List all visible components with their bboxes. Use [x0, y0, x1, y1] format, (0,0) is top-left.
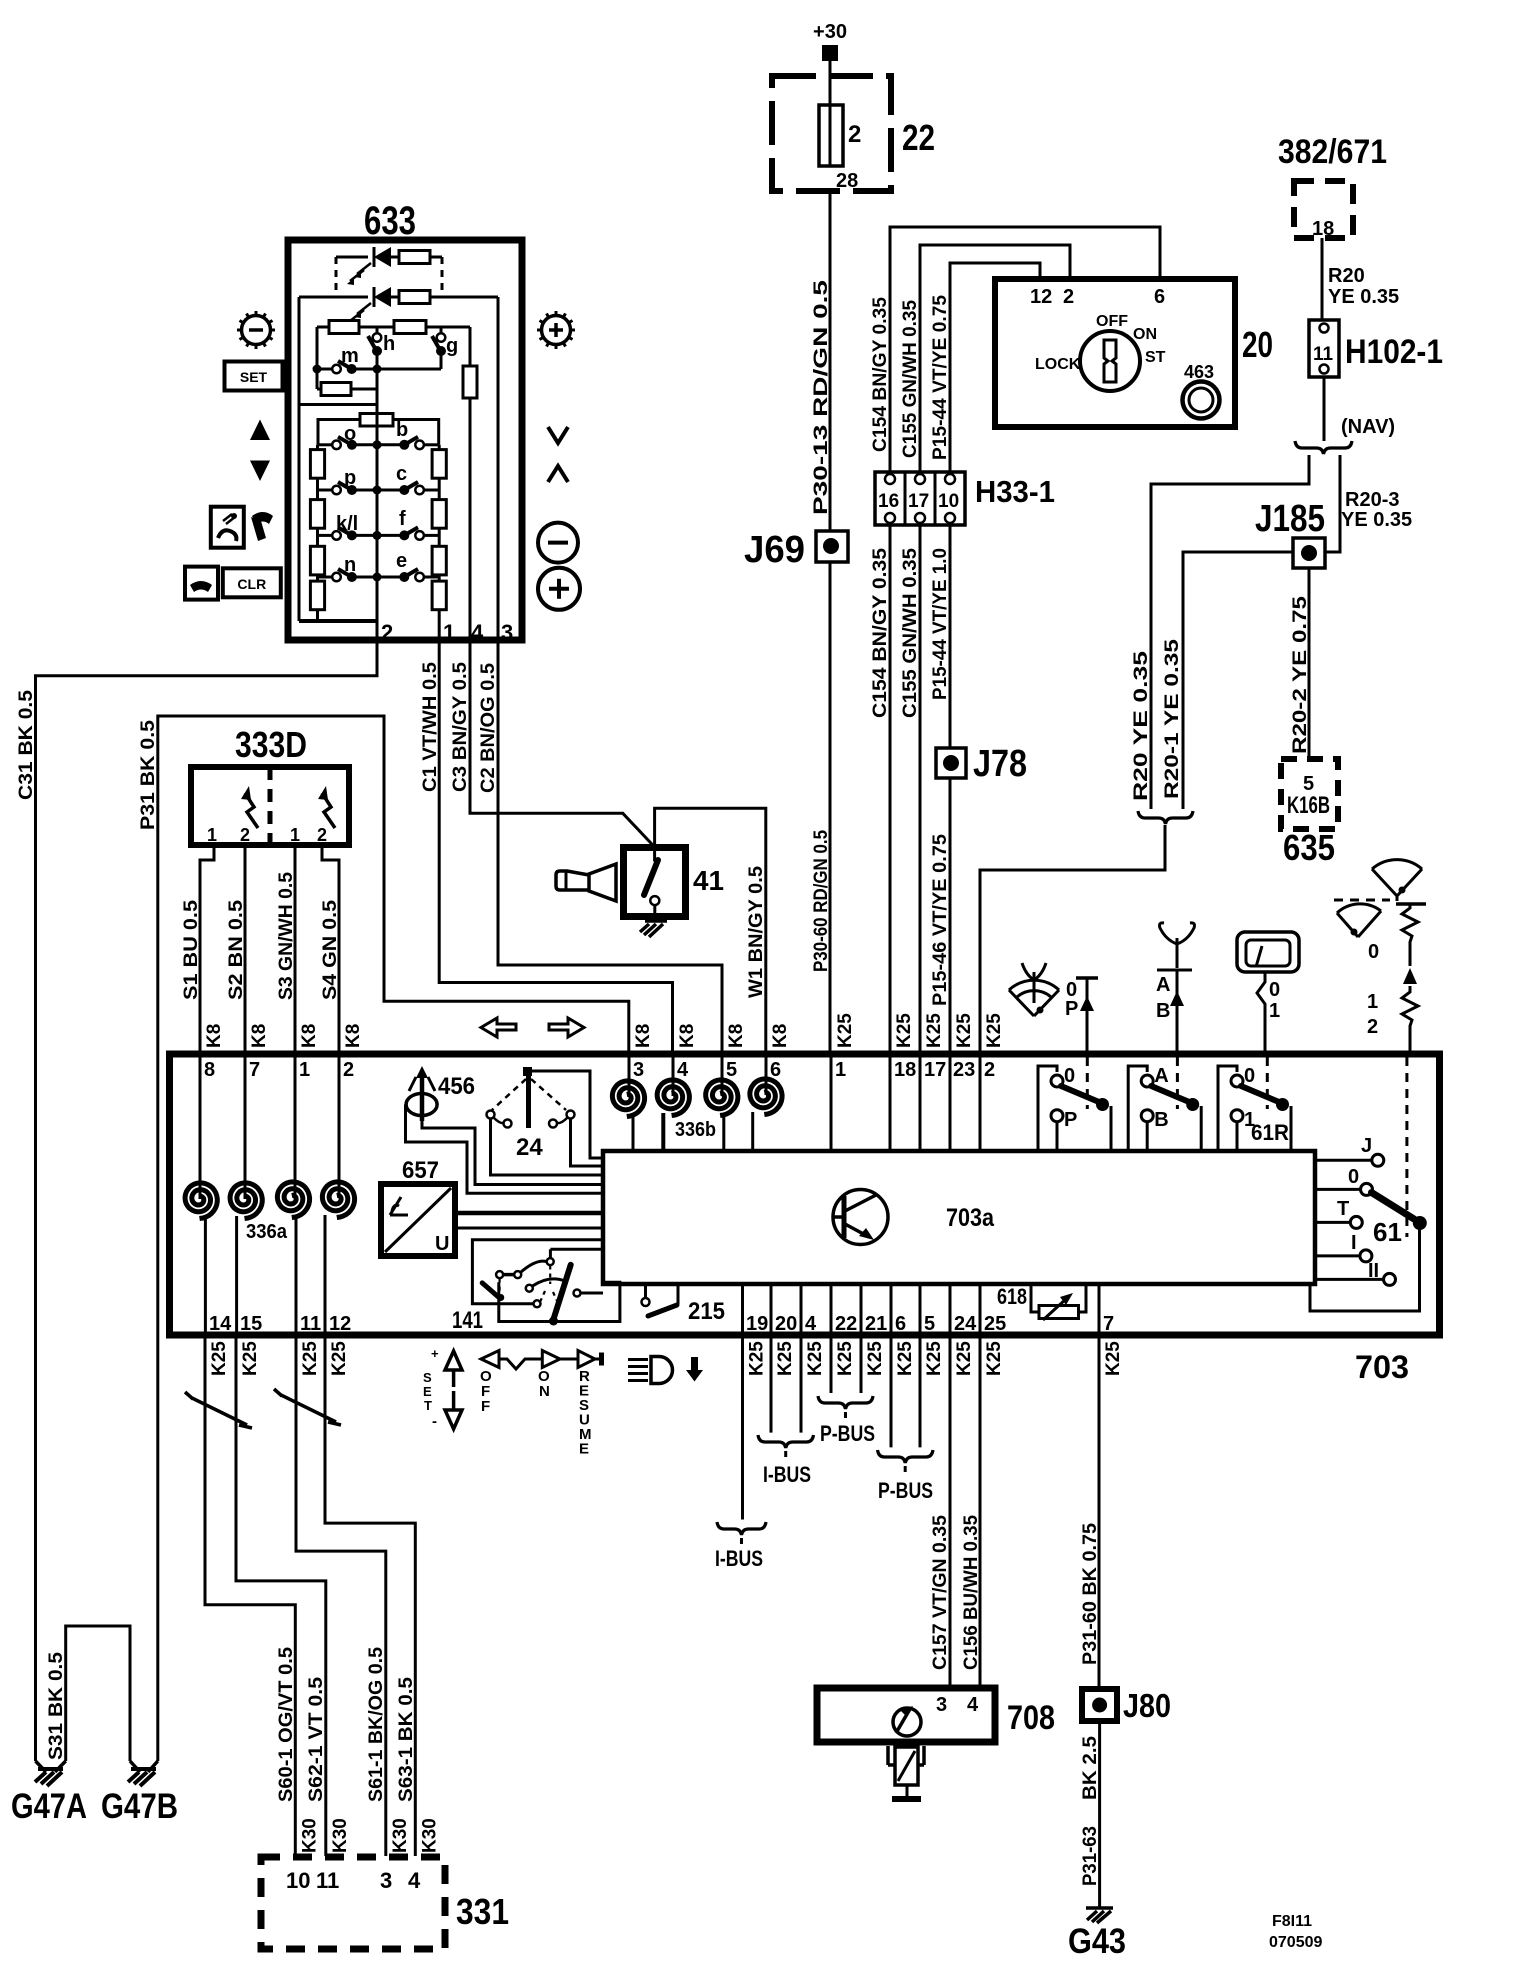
svg-text:331: 331	[456, 1891, 509, 1932]
wire W1 from 41 to 703 pin 6	[655, 808, 766, 1053]
svg-text:11: 11	[300, 1313, 321, 1335]
svg-text:P31 BK 0.5: P31 BK 0.5	[138, 720, 159, 830]
svg-text:E: E	[579, 1441, 589, 1458]
svg-text:S: S	[423, 1370, 432, 1385]
svg-text:10: 10	[938, 491, 959, 512]
wire S1 from 333D to 703 pin 8	[200, 845, 214, 1053]
icon OFF arrow	[481, 1351, 499, 1368]
wire S62-1 703 pin15 to 331 pin11	[236, 1338, 326, 1856]
svg-text:0: 0	[1348, 1166, 1359, 1188]
wire C154 H33-1 pin16 to ignition pin 6	[890, 227, 1160, 472]
svg-text:456: 456	[438, 1073, 475, 1100]
svg-text:2: 2	[1367, 1016, 1378, 1038]
svg-text:382/671: 382/671	[1278, 133, 1387, 171]
switch h in 633	[376, 327, 379, 334]
svg-text:SET: SET	[240, 369, 268, 385]
svg-text:K25: K25	[835, 1013, 856, 1048]
svg-text:17: 17	[924, 1059, 946, 1081]
svg-text:S62-1 VT 0.5: S62-1 VT 0.5	[306, 1677, 327, 1802]
actuator line with arrow (A/B group)	[1176, 970, 1179, 1053]
svg-text:T: T	[1337, 1198, 1349, 1220]
svg-text:R20-2 YE 0.75: R20-2 YE 0.75	[1290, 595, 1311, 754]
svg-text:n: n	[344, 554, 356, 576]
inner unit 703a	[603, 1151, 1315, 1284]
svg-text:4: 4	[677, 1059, 689, 1081]
svg-text:P: P	[1064, 1109, 1077, 1131]
LED 1 with dashed links in 633	[336, 256, 368, 259]
wire 703 pin21 to P-BUS	[860, 1338, 863, 1393]
svg-text:K8: K8	[677, 1024, 698, 1048]
wire C156 703 pin25 to 708	[979, 1338, 982, 1687]
coil 336a-3	[277, 1182, 309, 1218]
rotary switch 24	[523, 1067, 532, 1076]
svg-text:16: 16	[878, 491, 899, 512]
svg-text:k/l: k/l	[336, 513, 358, 535]
fuse box 22 (dashed housing)	[772, 76, 891, 191]
kinked actuator (display group)	[1257, 972, 1265, 1053]
svg-text:61: 61	[1373, 1217, 1402, 1247]
wire m-group bottom in 633	[299, 403, 377, 406]
wire S3 from 333D to 703 pin 1	[294, 845, 297, 1053]
svg-text:f: f	[399, 508, 406, 530]
wire 703 pin4 to I-BUS pair	[800, 1338, 803, 1433]
joint J69	[816, 531, 848, 562]
wire 24 left contact to 703a	[491, 1119, 604, 1176]
wire from 633 pin2 to C31 ground branch	[36, 621, 378, 1761]
svg-text:10: 10	[286, 1868, 310, 1893]
wire S61-1 703 pin11 to 331 pin3	[296, 1338, 386, 1856]
svg-text:P31-63: P31-63	[1080, 1826, 1101, 1886]
svg-text:C155 GN/WH 0.35: C155 GN/WH 0.35	[900, 548, 921, 718]
wire P30-13 from fuse 22 to J69	[829, 191, 832, 531]
wire from 61 wiper to 703a	[1310, 1223, 1420, 1311]
svg-text:K8: K8	[299, 1024, 320, 1048]
connector 331 (dashed)	[261, 1857, 445, 1949]
svg-text:S1 BU 0.5: S1 BU 0.5	[181, 900, 202, 1000]
coil 336b-1	[612, 1081, 644, 1117]
svg-text:S60-1 OG/VT 0.5: S60-1 OG/VT 0.5	[276, 1647, 297, 1802]
connector H102-1 pin 11	[1309, 320, 1339, 377]
svg-text:1: 1	[299, 1059, 310, 1081]
icon circle plus	[538, 568, 580, 610]
svg-text:C3 BN/GY 0.5: C3 BN/GY 0.5	[450, 662, 471, 792]
switch n in 633	[318, 576, 334, 579]
connector H33-1	[875, 472, 965, 525]
icon gear plus (right of 633)	[542, 316, 571, 345]
component 633 housing	[288, 240, 522, 640]
svg-text:2: 2	[381, 620, 393, 645]
joint J185	[1293, 538, 1325, 568]
svg-text:II: II	[1368, 1260, 1379, 1282]
wire +30 to fuse 22	[829, 61, 832, 105]
svg-text:23: 23	[953, 1059, 975, 1081]
svg-text:K25: K25	[894, 1013, 915, 1048]
brace P-BUS pair 1	[818, 1396, 873, 1409]
horn contact 41	[624, 848, 686, 917]
svg-text:-: -	[432, 1413, 437, 1430]
svg-text:2: 2	[848, 121, 861, 148]
svg-text:P30-13 RD/GN 0.5: P30-13 RD/GN 0.5	[811, 279, 832, 515]
svg-text:K25: K25	[775, 1341, 796, 1376]
svg-text:1: 1	[835, 1059, 846, 1081]
wire R20-1 from J185 to joint brace	[1183, 552, 1293, 809]
svg-text:1: 1	[290, 825, 300, 845]
svg-text:LOCK: LOCK	[1035, 356, 1081, 373]
svg-text:2: 2	[317, 825, 327, 845]
svg-text:g: g	[446, 335, 458, 357]
icon chevron up	[548, 466, 568, 482]
splice brace (NAV)	[1295, 441, 1352, 454]
svg-text:P: P	[1065, 998, 1078, 1020]
wire R20 YE from 382/671 pin 18	[1321, 238, 1324, 320]
dashed actuator line	[1086, 1057, 1089, 1109]
svg-text:I-BUS: I-BUS	[763, 1462, 811, 1487]
svg-text:0: 0	[1269, 979, 1280, 1001]
transistor symbol in 703a	[833, 1190, 888, 1245]
wire left bus in 633	[298, 297, 301, 621]
wire C3 from 633 pin4 to horn contact 41	[470, 642, 655, 847]
icon horn loudspeaker	[589, 864, 616, 901]
svg-text:633: 633	[364, 199, 416, 243]
svg-text:J80: J80	[1123, 1687, 1171, 1724]
icon intermittent wiper	[1160, 923, 1195, 968]
svg-text:CLR: CLR	[237, 576, 266, 592]
icon display	[1237, 932, 1299, 972]
ground G47B	[130, 1761, 158, 1772]
wire S60-1 703 pin14 to 331 pin10	[205, 1338, 295, 1856]
svg-text:8: 8	[204, 1059, 215, 1081]
icon phone handset	[252, 512, 273, 524]
wire 24 right contact to 703a	[571, 1119, 604, 1167]
svg-text:S61-1 BK/OG 0.5: S61-1 BK/OG 0.5	[366, 1647, 387, 1802]
svg-text:1: 1	[1367, 991, 1378, 1013]
ground G47A	[36, 1761, 66, 1772]
svg-text:K25: K25	[895, 1341, 916, 1376]
svg-text:333D: 333D	[235, 724, 307, 765]
joint J80	[1082, 1689, 1117, 1721]
switch contact group (A/B)	[1128, 1066, 1147, 1151]
svg-text:635: 635	[1283, 827, 1335, 868]
svg-text:6: 6	[895, 1313, 906, 1335]
wire 703 pin8 to coil 336a-1	[199, 1057, 202, 1199]
svg-text:YE 0.35: YE 0.35	[1328, 286, 1399, 308]
svg-text:K16B: K16B	[1287, 792, 1330, 819]
svg-text:141: 141	[452, 1307, 483, 1334]
switch contact group (0/P)	[1038, 1066, 1057, 1151]
joint brace for R20/R20-1	[1138, 811, 1193, 824]
button CLR icon	[223, 568, 281, 597]
wire 657 to 703a lower	[455, 1227, 603, 1230]
icon arrow down (flash)	[686, 1357, 703, 1382]
wire 703 pin4 to coil 336b-2	[672, 1057, 675, 1096]
svg-text:17: 17	[908, 491, 929, 512]
wire 141 contact to 703a	[550, 1248, 603, 1251]
icon gear minus (left of 633)	[242, 316, 271, 345]
svg-text:24: 24	[516, 1134, 543, 1161]
svg-text:P31-60 BK 0.75: P31-60 BK 0.75	[1080, 1523, 1101, 1665]
svg-text:c: c	[396, 463, 407, 485]
wire 703 pin22 to P-BUS	[830, 1338, 833, 1393]
svg-text:K30: K30	[419, 1818, 440, 1853]
svg-text:J185: J185	[1255, 498, 1325, 540]
svg-text:11: 11	[316, 1868, 339, 1893]
coil 336b-2	[657, 1080, 689, 1116]
switch o in 633	[318, 443, 334, 446]
svg-text:2: 2	[1063, 286, 1074, 308]
wire R20 from NAV splice to joint brace	[1151, 455, 1309, 809]
dashed actuator line for 61	[1405, 1057, 1408, 1237]
icon arrow down	[250, 461, 270, 482]
svg-text:11: 11	[1313, 344, 1334, 365]
wire 703 pin6 to coil 336b-4	[765, 1057, 768, 1095]
ground symbol below 41	[653, 917, 656, 921]
wire P30-60 from J69 to 703 pin 1	[829, 562, 832, 1053]
svg-text:C154 BN/GY 0.35: C154 BN/GY 0.35	[870, 297, 891, 452]
svg-text:4: 4	[471, 620, 484, 645]
coil 336a-2	[230, 1183, 262, 1219]
wire 456 stem to 703a	[422, 1121, 603, 1185]
svg-text:4: 4	[805, 1313, 817, 1335]
svg-text:K25: K25	[329, 1341, 350, 1376]
wire P31 ground bus to 703 pin 3	[158, 716, 629, 1761]
svg-text:K25: K25	[209, 1341, 230, 1376]
svg-text:2: 2	[343, 1059, 354, 1081]
wire P31-60 703 pin7 to J80	[1098, 1338, 1101, 1689]
svg-text:14: 14	[209, 1313, 232, 1335]
svg-text:A: A	[1154, 1065, 1168, 1087]
icon block arrow right	[549, 1018, 584, 1037]
switch m in 633	[317, 368, 333, 371]
svg-text:C154 BN/GY 0.35: C154 BN/GY 0.35	[870, 548, 891, 718]
wire centre bus in 633	[376, 405, 379, 622]
resistor top of keypad in 633	[360, 414, 393, 427]
resistor chain left in 633	[316, 445, 319, 621]
svg-text:R20-3: R20-3	[1345, 489, 1399, 511]
svg-text:22: 22	[902, 117, 935, 158]
joint J78	[936, 748, 966, 778]
svg-text:P-BUS: P-BUS	[878, 1478, 933, 1503]
svg-text:OFF: OFF	[1096, 313, 1128, 330]
svg-text:20: 20	[1242, 324, 1273, 365]
svg-text:20: 20	[775, 1313, 797, 1335]
wire C155 from H33-1 pin17 to 703 pin 17	[919, 525, 922, 1053]
icon wiper top right	[1372, 860, 1422, 896]
svg-text:61R: 61R	[1251, 1120, 1289, 1145]
svg-text:J69: J69	[744, 529, 805, 571]
svg-text:4: 4	[967, 1694, 979, 1716]
ignition switch 20	[995, 279, 1235, 427]
switch p in 633	[318, 489, 334, 492]
svg-text:3: 3	[936, 1694, 947, 1716]
svg-text:S63-1 BK 0.5: S63-1 BK 0.5	[396, 1677, 417, 1802]
svg-text:3: 3	[633, 1059, 644, 1081]
spring actuator with arrow (61 group)	[1396, 902, 1426, 906]
svg-text:J78: J78	[973, 743, 1027, 785]
svg-text:K30: K30	[299, 1818, 320, 1853]
brace I-BUS single	[717, 1522, 766, 1535]
wire 24 pivot to 703a	[532, 1071, 603, 1158]
svg-text:R20 YE 0.35: R20 YE 0.35	[1131, 650, 1152, 801]
svg-text:24: 24	[954, 1313, 977, 1335]
svg-text:H33-1: H33-1	[975, 474, 1055, 509]
svg-text:ST: ST	[1145, 349, 1166, 366]
wire P15-46 from J78 to 703 pin 23	[949, 778, 952, 1053]
svg-text:5: 5	[924, 1313, 935, 1335]
svg-text:3: 3	[501, 620, 513, 645]
svg-text:C1 VT/WH 0.5: C1 VT/WH 0.5	[420, 662, 441, 792]
svg-text:K8: K8	[204, 1024, 225, 1048]
button SET icon	[225, 362, 283, 391]
svg-text:S2 BN 0.5: S2 BN 0.5	[226, 900, 247, 1000]
svg-text:K25: K25	[954, 1341, 975, 1376]
fuse element 2 in fuse box 22	[819, 105, 843, 166]
svg-text:7: 7	[1103, 1313, 1114, 1335]
svg-text:12: 12	[329, 1313, 351, 1335]
svg-text:K25: K25	[924, 1341, 945, 1376]
wire R20-2 from J185 to K16B	[1308, 568, 1311, 758]
svg-text:G47B: G47B	[101, 1787, 178, 1826]
resistor on g branch in 633	[469, 327, 472, 366]
svg-text:S31 BK 0.5: S31 BK 0.5	[46, 1652, 67, 1760]
ground G43	[1086, 1908, 1113, 1923]
svg-text:12: 12	[1030, 286, 1052, 308]
wire 703 pin5 to coil 336b-3	[721, 1057, 724, 1096]
svg-text:463: 463	[1184, 362, 1214, 382]
svg-text:U: U	[435, 1233, 449, 1255]
switch contact group (0/1)	[1218, 1066, 1237, 1151]
svg-text:C156 BU/WH 0.35: C156 BU/WH 0.35	[961, 1515, 982, 1670]
svg-text:618: 618	[997, 1284, 1027, 1309]
svg-text:H102-1: H102-1	[1345, 333, 1443, 371]
svg-text:o: o	[344, 423, 356, 445]
wires 703 top pins 1/18/17/23/2 to 703a	[830, 1057, 833, 1151]
coil 336a-1	[185, 1183, 217, 1219]
svg-text:21: 21	[865, 1313, 887, 1335]
switch b in 633	[377, 443, 400, 446]
svg-text:K25: K25	[805, 1341, 826, 1376]
svg-text:18: 18	[894, 1059, 916, 1081]
icon block arrow left	[481, 1018, 516, 1037]
wire P31-63 from J80 to G43	[1098, 1721, 1101, 1908]
svg-text:+: +	[431, 1346, 439, 1361]
svg-text:K25: K25	[300, 1341, 321, 1376]
coil 336b-3	[706, 1080, 738, 1116]
icon circle minus	[538, 523, 578, 563]
icon headlamp flash	[651, 1357, 673, 1384]
svg-text:0: 0	[1064, 1065, 1075, 1087]
wire S63-1 703 pin12 to 331 pin4	[325, 1338, 415, 1856]
horn symbol in 708	[893, 1708, 921, 1736]
svg-text:YE 0.35: YE 0.35	[1341, 509, 1412, 531]
siren driver below 708	[888, 1746, 924, 1765]
icon wiper second	[1337, 904, 1381, 937]
alarm siren 708	[817, 1688, 995, 1742]
control unit 703 housing	[170, 1054, 1440, 1335]
svg-text:h: h	[383, 333, 395, 355]
svg-text:J: J	[1361, 1135, 1372, 1157]
resistor below m in 633	[316, 369, 319, 389]
svg-text:W1 BN/GY 0.5: W1 BN/GY 0.5	[746, 866, 767, 998]
svg-text:K30: K30	[330, 1818, 351, 1853]
svg-text:P-BUS: P-BUS	[820, 1421, 875, 1446]
dashed actuator line	[1266, 1057, 1269, 1109]
svg-text:K25: K25	[1103, 1341, 1124, 1376]
svg-text:K25: K25	[924, 1013, 945, 1048]
wire from brace to 703 pin 2	[980, 825, 1165, 1053]
svg-text:K8: K8	[770, 1024, 791, 1048]
wire 657 to 703a upper	[455, 1211, 603, 1216]
wires 703a to 703 bottom pins	[741, 1284, 744, 1332]
lamp 463 in switch 20	[1183, 382, 1220, 419]
svg-text:F8I11: F8I11	[1272, 1913, 1312, 1930]
svg-text:K30: K30	[390, 1818, 411, 1853]
coil 336a-4	[322, 1182, 354, 1218]
wire C1 from 633 pin1 to 703 pin 4	[439, 642, 672, 1053]
switch 215	[644, 1284, 647, 1297]
icon chevron down	[548, 427, 568, 443]
svg-text:N: N	[539, 1383, 550, 1400]
antenna symbol 456	[420, 1073, 425, 1121]
svg-text:I-BUS: I-BUS	[715, 1546, 763, 1571]
svg-text:K25: K25	[835, 1341, 856, 1376]
svg-text:S3 GN/WH 0.5: S3 GN/WH 0.5	[276, 872, 297, 1000]
coil 336b-4	[750, 1079, 782, 1115]
svg-text:336b: 336b	[675, 1119, 716, 1141]
svg-text:b: b	[396, 419, 408, 441]
svg-text:BK 2.5: BK 2.5	[1080, 1736, 1101, 1800]
wire 703 pin3 to coil 336b-1	[628, 1057, 631, 1097]
wire S31 ground loop	[66, 1626, 130, 1761]
brace I-BUS pair	[758, 1435, 814, 1448]
wire 703 pin20 to I-BUS pair	[770, 1338, 773, 1433]
wire from H102-1 to NAV splice	[1323, 377, 1326, 441]
wire C2 from 633 pin3 to 703 pin 5	[498, 297, 722, 1053]
svg-text:S4 GN 0.5: S4 GN 0.5	[320, 900, 341, 1000]
svg-text:p: p	[344, 467, 356, 489]
wire S4 from 333D to 703 pin 2	[322, 845, 339, 1053]
svg-text:1: 1	[207, 825, 217, 845]
svg-text:0: 0	[1368, 941, 1379, 963]
svg-text:R20: R20	[1328, 265, 1365, 287]
wire 703 pin5 to P-BUS 2	[919, 1338, 922, 1447]
disconnect slash wires 11/12	[281, 1395, 336, 1422]
svg-text:G43: G43	[1068, 1922, 1126, 1961]
svg-text:P15-44 VT/YE 1.0: P15-44 VT/YE 1.0	[930, 548, 951, 700]
svg-text:0: 0	[1244, 1065, 1255, 1087]
svg-text:R20-1 YE 0.35: R20-1 YE 0.35	[1162, 638, 1183, 799]
svg-text:m: m	[341, 345, 359, 367]
switch f in 633	[377, 534, 400, 537]
wire 703 pin1 to coil 336a-3	[294, 1057, 297, 1198]
switch g in 633	[440, 327, 443, 334]
svg-text:708: 708	[1007, 1699, 1055, 1737]
icon arrow up	[250, 420, 270, 441]
svg-text:B: B	[1156, 1000, 1170, 1022]
svg-text:(NAV): (NAV)	[1341, 416, 1395, 438]
resistor chain right in 633	[438, 445, 441, 642]
svg-text:215: 215	[688, 1298, 725, 1325]
rotary switch 61	[1315, 1159, 1372, 1162]
svg-text:C31 BK 0.5: C31 BK 0.5	[16, 690, 37, 800]
wire 703 pin7 to coil 336a-2	[244, 1057, 247, 1199]
wire 703 pin2 to coil 336a-4	[338, 1057, 341, 1198]
svg-text:+30: +30	[813, 21, 847, 43]
svg-text:7: 7	[249, 1059, 260, 1081]
svg-text:K25: K25	[865, 1341, 886, 1376]
svg-text:15: 15	[240, 1313, 262, 1335]
svg-text:703: 703	[1355, 1349, 1409, 1385]
svg-text:28: 28	[836, 170, 858, 192]
